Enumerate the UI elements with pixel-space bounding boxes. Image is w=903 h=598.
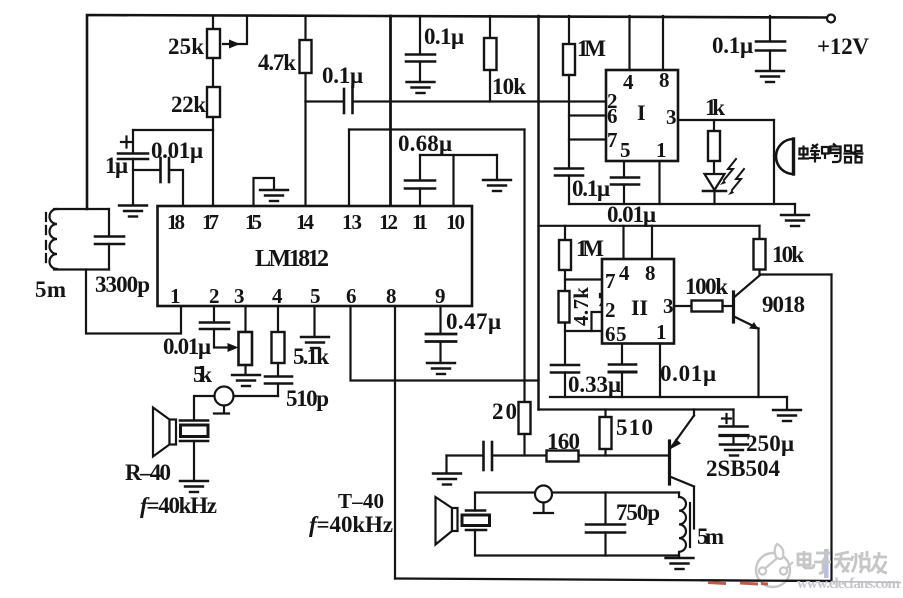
- svg-text:1M: 1M: [577, 36, 606, 61]
- wire bottom frame redraw over logo: [700, 579, 832, 582]
- wire IC I pin8: [662, 16, 664, 70]
- svg-text:10k: 10k: [772, 242, 804, 267]
- ground bus I: [794, 204, 796, 214]
- svg-text:5.1k: 5.1k: [293, 344, 329, 369]
- wire IC II pin2 jumper: [592, 312, 603, 331]
- watermark gray line: [832, 582, 902, 583]
- svg-text:LM1812: LM1812: [255, 246, 329, 272]
- svg-text:+12V: +12V: [817, 34, 869, 59]
- wire circle to R-40: [194, 396, 215, 420]
- capacitor 0.01u IC I pin5: [623, 161, 625, 177]
- wire IC II pin4: [622, 226, 624, 259]
- inductor 5m output: [679, 493, 686, 556]
- svg-text:6: 6: [605, 322, 616, 346]
- potentiometer pin3: [244, 306, 246, 332]
- svg-text:2: 2: [209, 284, 220, 308]
- svg-text:2: 2: [605, 298, 616, 322]
- transducer T-40: [466, 509, 485, 512]
- svg-text:7: 7: [607, 128, 618, 152]
- svg-text:3: 3: [234, 284, 245, 308]
- svg-text:0.68μ: 0.68μ: [398, 131, 452, 156]
- svg-text:0.1μ: 0.1μ: [424, 24, 464, 49]
- op-amp U1 timer I box: [606, 70, 678, 161]
- svg-text:17: 17: [202, 210, 219, 234]
- svg-text:510: 510: [616, 415, 653, 440]
- svg-text:9: 9: [435, 284, 446, 308]
- ground bus II: [786, 397, 788, 409]
- svg-text:I: I: [637, 100, 646, 125]
- svg-text:0.1μ: 0.1μ: [572, 176, 610, 201]
- resistor 1M timer II: [564, 226, 566, 240]
- resistor 22k: [207, 87, 220, 117]
- svg-text:1k: 1k: [705, 95, 725, 120]
- svg-text:4: 4: [623, 70, 634, 94]
- watermark logo: [756, 544, 793, 587]
- resistor 4.7k timer II: [559, 291, 570, 323]
- resistor 10k top: [489, 16, 491, 38]
- wire +12V drop line: [537, 16, 540, 410]
- capacitor 0.01u coupling pin18: [133, 169, 159, 171]
- resistor 10k timer II: [758, 226, 760, 239]
- wire collector node to riser: [760, 273, 832, 275]
- svg-text:1M: 1M: [576, 236, 604, 261]
- svg-text:3: 3: [663, 294, 674, 318]
- potentiometer 25k: [212, 16, 214, 29]
- capacitor 250u electrolytic: [732, 410, 734, 427]
- control 5k circle: [215, 387, 234, 406]
- svg-text:R–40: R–40: [125, 460, 171, 485]
- wire right feedback riser: [830, 275, 832, 582]
- wire pin10: [452, 155, 454, 206]
- svg-text:5k: 5k: [193, 362, 212, 387]
- svg-text:3: 3: [666, 105, 677, 129]
- resistor 20 driver: [519, 402, 531, 434]
- capacitor 0.1u bypass left: [419, 16, 421, 54]
- ground 0.68u: [496, 155, 498, 179]
- capacitor 750p: [604, 493, 606, 525]
- capacitor 0.1u timer I: [555, 167, 583, 170]
- wire T-40 loop top: [475, 493, 679, 511]
- transistor Q1 9018: [732, 292, 735, 322]
- buzzer label (Chinese): [798, 144, 864, 163]
- svg-text:5: 5: [616, 322, 627, 346]
- resistor 100k: [674, 305, 692, 307]
- capacitor 510p: [265, 375, 292, 378]
- svg-text:22k: 22k: [171, 92, 206, 117]
- svg-text:1: 1: [656, 320, 667, 344]
- capacitor 0.01u IC II pin5: [621, 344, 623, 365]
- svg-text:10k: 10k: [492, 74, 526, 99]
- svg-text:160: 160: [547, 429, 580, 454]
- capacitor series base: [482, 442, 485, 470]
- wire modulator line: [349, 128, 525, 130]
- svg-text:5m: 5m: [35, 277, 66, 302]
- svg-text:25k: 25k: [168, 34, 204, 59]
- svg-text:www.elecfans.com: www.elecfans.com: [797, 576, 901, 592]
- svg-text:0.01μ: 0.01μ: [151, 138, 203, 163]
- svg-text:2SB504: 2SB504: [706, 456, 781, 481]
- wire ground bus II: [550, 396, 787, 398]
- watermark Chinese text: [798, 551, 887, 573]
- svg-text:f=40kHz: f=40kHz: [309, 512, 393, 537]
- ground pin5: [313, 306, 315, 336]
- op-amp U2 timer II box: [602, 259, 674, 344]
- svg-text:0.33μ: 0.33μ: [568, 372, 621, 397]
- svg-text:6: 6: [346, 284, 357, 308]
- resistor 1M timer I: [568, 16, 570, 44]
- wire IC I pin7: [569, 138, 606, 140]
- wire node 1u/22k: [133, 129, 213, 131]
- svg-text:13: 13: [342, 210, 362, 234]
- ground base cap: [445, 456, 447, 473]
- capacitor 3300p: [108, 209, 110, 236]
- wire IC I pin4: [628, 16, 630, 70]
- svg-text:9018: 9018: [762, 292, 805, 317]
- svg-text:12: 12: [379, 210, 398, 234]
- svg-text:II: II: [631, 295, 648, 320]
- wire pin8 feedback down: [394, 306, 396, 579]
- wire pin15 ground hook: [254, 178, 275, 206]
- wire base bus: [447, 454, 484, 456]
- wire timer II Vcc rail: [539, 225, 760, 227]
- resistor 510: [604, 410, 606, 418]
- svg-text:1μ: 1μ: [105, 153, 128, 178]
- svg-text:0.01μ: 0.01μ: [660, 361, 716, 386]
- svg-text:11: 11: [412, 210, 428, 234]
- svg-text:0.01μ: 0.01μ: [607, 202, 656, 227]
- ground 0.1u +12V: [756, 71, 784, 82]
- wire to IC I pin2: [353, 100, 606, 102]
- svg-text:5m: 5m: [697, 524, 724, 549]
- svg-text:3300p: 3300p: [95, 272, 150, 297]
- wire IC I pin3: [678, 119, 774, 121]
- svg-text:4.7k: 4.7k: [258, 50, 296, 75]
- wire pin14: [304, 102, 306, 207]
- transistor Q2 2SB504: [668, 441, 671, 484]
- wire circle to 510p: [234, 395, 279, 397]
- svg-text:8: 8: [386, 284, 397, 308]
- resistor 4.7k: [304, 16, 306, 40]
- wire IC I pin1: [658, 161, 660, 204]
- wire IC I pin6: [569, 114, 606, 116]
- wire IC II pin1: [659, 344, 661, 398]
- svg-text:1: 1: [170, 284, 181, 308]
- svg-text:250μ: 250μ: [746, 431, 794, 456]
- svg-text:4: 4: [272, 284, 283, 308]
- wire bottom frame: [395, 579, 832, 582]
- svg-text:5: 5: [310, 284, 321, 308]
- buzzer: [774, 155, 778, 157]
- wire pin6 to driver: [351, 306, 539, 381]
- wire tank to pin1: [86, 270, 181, 334]
- control circle T-40: [535, 486, 552, 503]
- resistor 5.1k pin4: [277, 306, 279, 332]
- capacitor 1u electrolytic: [132, 130, 134, 152]
- svg-text:T–40: T–40: [338, 489, 384, 513]
- wire IC II pin6: [565, 330, 602, 332]
- resistor 160: [547, 451, 579, 462]
- svg-text:15: 15: [245, 210, 262, 234]
- wire ground bus I: [569, 203, 795, 205]
- red dashes on bottom frame: [708, 583, 768, 585]
- wire IC II pin8: [651, 226, 653, 259]
- watermark blue streak: [824, 549, 829, 578]
- svg-text:8: 8: [659, 68, 670, 92]
- wire detector input: [306, 100, 344, 102]
- svg-text:4: 4: [619, 261, 630, 285]
- svg-text:10: 10: [446, 210, 465, 234]
- capacitor 0.1u +12V bypass: [769, 16, 771, 41]
- wire pin17: [212, 130, 214, 206]
- IC LM1812: [158, 206, 473, 306]
- capacitor 0.1u series: [343, 89, 346, 113]
- ground 1u: [119, 206, 147, 217]
- terminal +12V: [827, 15, 835, 23]
- capacitor 0.01u pin2: [213, 306, 215, 322]
- svg-text:510p: 510p: [286, 386, 329, 411]
- wire top +12V rail: [87, 15, 826, 209]
- LED indicator: [705, 174, 725, 190]
- wire drive drop line: [523, 130, 525, 403]
- wire emitter supply: [539, 408, 734, 410]
- wire pin13: [348, 130, 350, 207]
- wire T-40 loop bottom: [475, 530, 679, 556]
- svg-text:0.1μ: 0.1μ: [712, 33, 753, 58]
- svg-text:18: 18: [167, 210, 185, 234]
- svg-text:100k: 100k: [685, 274, 728, 299]
- svg-text:0.01μ: 0.01μ: [163, 334, 211, 359]
- ground 0.1u left: [407, 82, 435, 93]
- svg-text:5: 5: [620, 138, 631, 162]
- svg-text:0.1μ: 0.1μ: [322, 63, 363, 88]
- inductor 5m receive tank: [54, 208, 109, 210]
- svg-text:0.47μ: 0.47μ: [446, 309, 501, 334]
- svg-text:14: 14: [296, 210, 315, 234]
- wire buzzer branch: [773, 120, 775, 204]
- capacitor 0.47u pin9: [439, 306, 441, 334]
- svg-text:6: 6: [607, 104, 618, 128]
- svg-text:1: 1: [656, 138, 667, 162]
- wire pin12 B+: [389, 16, 392, 206]
- transducer R-40: [180, 419, 208, 422]
- resistor 1k: [713, 120, 715, 131]
- capacitor 0.68u: [420, 154, 497, 156]
- svg-text:750p: 750p: [616, 500, 660, 525]
- ground T-40 loop: [678, 556, 680, 558]
- capacitor 0.33u: [551, 364, 579, 367]
- svg-text:8: 8: [645, 261, 656, 285]
- svg-text:7: 7: [605, 269, 616, 293]
- wire IC II pin7: [565, 278, 602, 280]
- svg-text:f=40kHz: f=40kHz: [140, 493, 217, 518]
- svg-text:4.7k: 4.7k: [569, 287, 593, 326]
